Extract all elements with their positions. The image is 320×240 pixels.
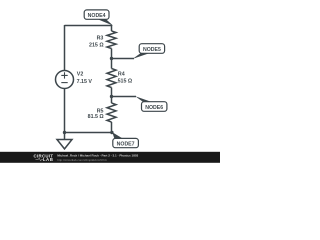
junction dot on left rail at bottom wire [63,131,66,134]
svg-text:NODE5: NODE5 [143,47,161,53]
voltage source V2 circle [56,71,74,89]
svg-text:NODE4: NODE4 [88,13,106,19]
svg-text:LAB: LAB [43,157,54,162]
wire top horizontal from V2 rail to R3 top [65,25,112,27]
junction dot node7 [110,131,113,134]
node NODE4 box [84,10,109,19]
wire node6 stub to the right [112,96,137,98]
svg-text:Michael_Rock / Michael Rock -: Michael_Rock / Michael Rock - Part 2 - 3… [57,154,138,158]
V2 minus sign [61,82,67,84]
wire R5 top lead [111,97,113,104]
node NODE5 flag pointer [133,53,149,59]
node NODE4 flag pointer [97,19,113,26]
wire R3 bottom lead [111,49,113,59]
wire R4 top lead [111,59,113,69]
node NODE6 box [142,102,167,112]
svg-text:http://circuitlab.com/c6mptkkb: http://circuitlab.com/c6mptkkbrm57nb [57,158,107,162]
wire left rail upper (top corner down to V2 plus terminal) [64,25,66,71]
svg-text:81.5 Ω: 81.5 Ω [88,114,105,120]
svg-text:NODE7: NODE7 [117,141,135,147]
junction dot node5 [110,57,113,60]
wire R3 top lead [111,25,113,31]
svg-text:R3: R3 [97,36,104,42]
ground [57,140,72,149]
wire bottom horizontal (ground rail to NODE7 junction) [65,132,112,134]
wire left rail lower (V2 minus terminal down to ground) [64,88,66,139]
node NODE6 flag pointer [135,96,151,102]
resistor R5 zigzag [107,103,116,122]
footer CircuitLab logo waveform [36,158,44,160]
footer watermark bar [0,152,220,163]
resistor R4 zigzag [107,69,116,88]
svg-text:R4: R4 [118,72,125,78]
svg-text:7.15 V: 7.15 V [77,79,93,85]
svg-text:215 Ω: 215 Ω [89,43,104,49]
V2 plus sign [61,72,67,78]
node NODE7 box [113,138,139,147]
junction dot node6 [110,95,113,98]
wire node5 stub to the right [112,58,135,60]
svg-text:NODE6: NODE6 [145,105,163,111]
wire R4 bottom lead [111,88,113,97]
node NODE5 box [139,44,164,54]
node NODE7 flag pointer [112,132,123,138]
wire R5 bottom lead [111,122,113,133]
svg-text:V2: V2 [77,72,84,78]
resistor R3 zigzag [107,31,116,49]
svg-text:515 Ω: 515 Ω [118,78,133,84]
